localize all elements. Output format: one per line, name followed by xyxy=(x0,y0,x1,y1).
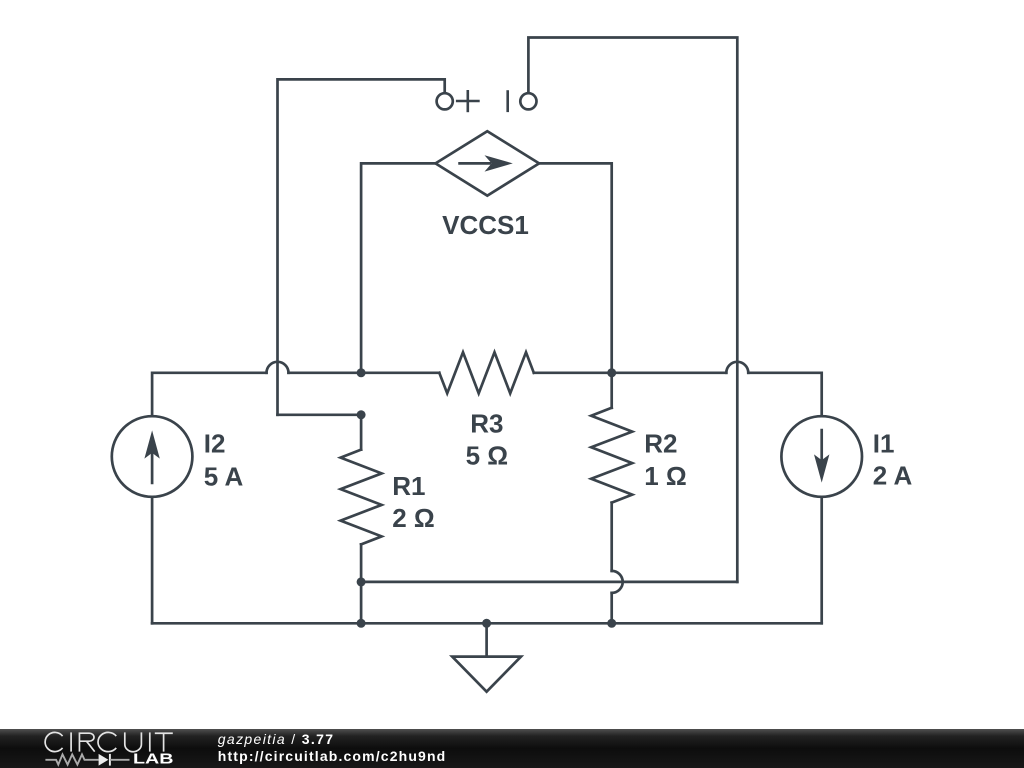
wire top-left horizontal to + terminal xyxy=(278,79,445,414)
wire VCCS left lead xyxy=(361,163,435,372)
svg-text:2 A: 2 A xyxy=(873,460,913,490)
logo squiggle resistor-diode xyxy=(45,754,129,766)
wire mid rail R3 to hop xyxy=(534,371,727,374)
VCCS1 arrow xyxy=(460,155,513,171)
wire sense horizontal R1-bottom to right vertical xyxy=(361,581,737,584)
logo CIRCUIT drawn letters xyxy=(45,732,173,751)
svg-text:VCCS1: VCCS1 xyxy=(442,210,529,240)
wire mid rail to R3 xyxy=(289,371,440,374)
ground xyxy=(452,623,521,691)
wire VCCS right lead xyxy=(539,163,612,372)
svg-text:5 Ω: 5 Ω xyxy=(466,441,509,471)
label - sign (rotated bar) xyxy=(506,92,509,111)
wire top-right loop from - terminal down right side xyxy=(528,38,737,582)
node junction R2 bottom rail xyxy=(607,619,616,628)
wire hop R2-branch over sense wire xyxy=(612,571,623,593)
svg-text:R1: R1 xyxy=(392,471,425,501)
resistor R2 xyxy=(591,373,632,571)
resistor R1 xyxy=(341,415,382,624)
node junction R1 bottom rail xyxy=(357,619,366,628)
terminal - circle xyxy=(520,93,536,109)
node junction R2 top rail xyxy=(607,368,616,377)
svg-text:1 Ω: 1 Ω xyxy=(644,461,687,491)
wire mid rail left from I2 xyxy=(152,373,266,415)
wire hop rail over right sense vertical xyxy=(726,362,748,373)
node junction ground xyxy=(482,619,491,628)
svg-text:R3: R3 xyxy=(470,408,503,438)
node junction R1 top rail xyxy=(357,368,366,377)
op-amp VCCS1 diamond body xyxy=(436,131,540,195)
wire I2 bottom lead xyxy=(151,497,154,624)
svg-text:http://circuitlab.com/c2hu9nd: http://circuitlab.com/c2hu9nd xyxy=(218,748,447,764)
svg-text:I2: I2 xyxy=(204,428,226,458)
I1 arrow down xyxy=(814,430,829,483)
svg-text:LAB: LAB xyxy=(133,750,174,767)
wire R2-branch to bottom rail xyxy=(610,593,613,623)
svg-text:I1: I1 xyxy=(873,428,895,458)
wire mid rail right to I1 xyxy=(748,373,821,415)
current source I1 circle xyxy=(781,416,862,497)
wire I1 bottom lead xyxy=(820,497,823,624)
svg-text:5 A: 5 A xyxy=(204,461,244,491)
svg-text:gazpeitia / 3.77: gazpeitia / 3.77 xyxy=(218,731,335,747)
node junction R1 bottom sense xyxy=(357,577,366,586)
terminal + circle xyxy=(437,93,453,109)
svg-text:R2: R2 xyxy=(644,429,677,459)
wire hop rail over left loop xyxy=(267,362,289,373)
label + sign xyxy=(457,91,478,111)
resistor R3 xyxy=(439,352,534,393)
wire bottom rail xyxy=(152,622,822,625)
current source I2 circle xyxy=(112,416,193,497)
wire left loop bottom horizontal xyxy=(278,413,362,416)
I2 arrow up xyxy=(144,430,159,483)
svg-text:2 Ω: 2 Ω xyxy=(392,503,435,533)
node junction left loop to R1 xyxy=(357,410,366,419)
